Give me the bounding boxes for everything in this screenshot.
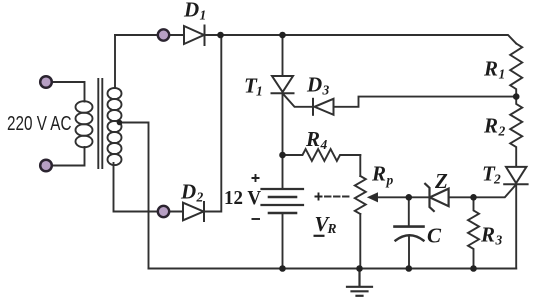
ground symbol [347,269,372,296]
svg-text:C: C [427,224,442,248]
wire top bus from transformer secondary top to right side [115,35,516,44]
potentiometer Rp [355,176,366,214]
transformer primary bottom lead [53,147,85,166]
svg-text:2: 2 [498,124,506,139]
svg-text:D: D [306,73,322,97]
diode D1 [184,26,205,46]
svg-text:1: 1 [200,8,207,23]
zener diode Z [409,196,428,198]
Rp wiper arm [376,196,409,198]
svg-text:R: R [305,127,320,151]
diode D3 [313,99,334,115]
AC input terminal bottom [40,160,52,172]
node circle on D2 wire [158,206,169,217]
wire D2 cathode up to top bus [204,35,221,212]
transformer primary winding [76,101,93,147]
resistor R4 [283,149,361,161]
wire T1 cathode down to battery [282,93,284,188]
svg-text:12 V: 12 V [224,187,261,209]
battery plus sign [252,174,325,236]
svg-text:3: 3 [322,83,330,98]
wire bottom ground bus [149,268,517,270]
thyristor T1 [272,76,294,93]
dashed VR reference line [325,196,352,198]
junction node dots [117,32,520,272]
svg-text:p: p [386,173,394,188]
resistor R3 [468,197,479,268]
battery 12V [262,189,304,205]
thyristor T2 [504,167,527,184]
svg-text:2: 2 [196,190,204,205]
transformer core [98,79,102,168]
wire D3 anode to R1-R2 junction [334,97,517,107]
wire secondary top lead [114,35,116,88]
wire center tap to bottom-left corner [120,123,149,269]
wire T2 cathode to ground bus [515,184,517,268]
VR plus sign [315,193,323,201]
svg-text:R: R [327,221,337,236]
svg-text:D: D [180,180,196,204]
svg-text:R: R [483,114,498,138]
svg-text:D: D [183,0,199,22]
wire secondary bottom lead to D2 [114,163,184,212]
transformer secondary winding [108,88,122,165]
VR minus sign [314,235,325,237]
svg-text:4: 4 [320,137,328,152]
svg-text:220 V AC: 220 V AC [7,113,72,135]
wire battery negative to ground bus [282,214,284,269]
svg-text:R: R [483,57,498,81]
svg-text:3: 3 [495,233,503,248]
AC input terminal top [40,76,52,88]
node circle on D1 wire [158,29,169,40]
battery minus sign [252,218,261,220]
thyristor T1 anode wire [282,35,284,76]
wire gate of T2 [474,185,517,198]
svg-text:1: 1 [499,67,506,82]
wire R4 to Rp top [359,155,361,176]
svg-text:R: R [371,162,386,186]
diode D2 [183,202,204,221]
wire Rp bottom to ground bus [359,214,361,269]
resistor R1 [510,44,522,97]
transformer primary top lead [53,82,85,102]
svg-text:Z: Z [434,169,448,193]
svg-text:2: 2 [493,172,501,187]
resistor R2 [510,97,522,167]
wire T1 gate to D3 [283,93,314,107]
svg-text:R: R [480,223,495,247]
svg-text:1: 1 [256,84,263,99]
capacitor C [408,197,410,225]
